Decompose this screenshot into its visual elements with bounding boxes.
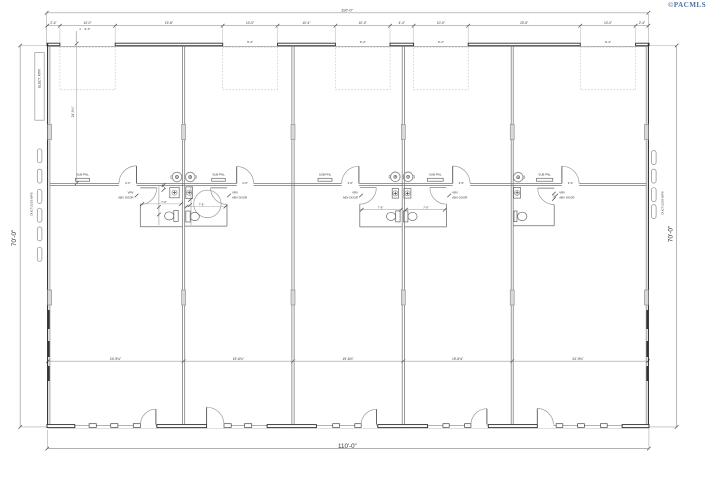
svg-text:ABV DOOR: ABV DOOR bbox=[232, 196, 247, 200]
svg-text:19'-6¾": 19'-6¾" bbox=[342, 357, 354, 361]
svg-text:7'-6": 7'-6" bbox=[378, 206, 384, 210]
svg-text:VRV: VRV bbox=[559, 190, 565, 194]
bathroom unit 3 (toilet, sink, door) bbox=[360, 188, 403, 227]
svg-text:ABV DOOR: ABV DOOR bbox=[343, 196, 358, 200]
water heater 1 bbox=[171, 172, 182, 182]
label: VRV above door unit 4 bbox=[447, 190, 467, 199]
label: door height 9'-4" (opening 3) bbox=[360, 40, 366, 44]
svg-text:ABV DOOR: ABV DOOR bbox=[118, 196, 133, 200]
svg-text:9'-4": 9'-4" bbox=[438, 40, 444, 44]
svg-text:10'-0": 10'-0" bbox=[359, 21, 367, 25]
svg-text:DUCTLESS MPS: DUCTLESS MPS bbox=[30, 192, 34, 215]
bathroom unit 1 (toilet, sink, door) bbox=[140, 183, 183, 226]
label: VRV above door unit 2 bbox=[227, 190, 247, 199]
wall: left exterior bbox=[48, 43, 50, 427]
water heater 4 bbox=[403, 172, 414, 182]
svg-text:SUB PNL: SUB PNL bbox=[212, 173, 225, 177]
wall: mid partition (front/back) bbox=[50, 183, 646, 185]
dimension row: bay segments (top) bbox=[45, 21, 650, 43]
svg-text:VRV: VRV bbox=[128, 190, 134, 194]
sub panel unit 2 bbox=[212, 173, 226, 182]
dimension: right height 70'-0" bbox=[649, 44, 679, 429]
svg-text:24'-9¾": 24'-9¾" bbox=[71, 107, 75, 118]
sub panel unit 3 bbox=[318, 173, 332, 182]
svg-text:24'-9¾": 24'-9¾" bbox=[110, 357, 122, 361]
label: door height 9'-4" (opening 1) bbox=[76, 27, 90, 43]
door: unit 2 mid-partition door 3'-0" bbox=[237, 167, 254, 185]
wall: right exterior bbox=[646, 43, 648, 427]
svg-text:9'-4": 9'-4" bbox=[85, 27, 91, 31]
svg-text:10'-0": 10'-0" bbox=[604, 21, 612, 25]
svg-text:9'-4": 9'-4" bbox=[360, 40, 366, 44]
wall: bottom exterior bbox=[47, 425, 649, 429]
water heater 2 bbox=[185, 172, 196, 182]
bathroom unit 4 (toilet, sink, door) bbox=[404, 188, 447, 227]
dimension row: unit widths (interior) bbox=[46, 357, 650, 363]
water heater 5 bbox=[513, 172, 524, 182]
bathroom unit 5 (toilet, sink, door) bbox=[513, 188, 555, 226]
svg-text:24'-9¾": 24'-9¾" bbox=[572, 357, 584, 361]
wall: unit divider 4 (x=512) bbox=[511, 46, 513, 425]
svg-text:19'-8": 19'-8" bbox=[165, 21, 173, 25]
svg-text:2'-4": 2'-4" bbox=[639, 21, 645, 25]
svg-text:10'-0": 10'-0" bbox=[83, 21, 91, 25]
svg-text:10'-4": 10'-4" bbox=[302, 21, 310, 25]
water heater 3 bbox=[389, 172, 400, 182]
svg-text:9'-4": 9'-4" bbox=[247, 40, 253, 44]
door: unit 2 rear man door bbox=[207, 407, 224, 424]
dimension: front bay depth 24'-9 3/4" bbox=[71, 42, 78, 185]
svg-text:19'-6¾": 19'-6¾" bbox=[452, 357, 464, 361]
sub panel unit 5 bbox=[537, 173, 553, 182]
svg-text:110'-0": 110'-0" bbox=[338, 443, 357, 450]
dashed: overhead door tracks bbox=[60, 47, 636, 90]
svg-text:ABV DOOR: ABV DOOR bbox=[452, 196, 467, 200]
ductless condensers (left) bbox=[37, 149, 42, 261]
label: door height 9'-4" (opening 4) bbox=[438, 40, 444, 44]
left wall girt segments bbox=[48, 310, 50, 381]
svg-text:ELECT. MTR: ELECT. MTR bbox=[38, 69, 42, 88]
wall: unit divider 3 (x=403) bbox=[402, 46, 404, 425]
svg-text:VRV: VRV bbox=[232, 190, 238, 194]
svg-text:2'-4": 2'-4" bbox=[50, 21, 56, 25]
watermark PACMLS bbox=[668, 1, 706, 9]
svg-text:4'-4": 4'-4" bbox=[399, 21, 405, 25]
svg-text:110'-0": 110'-0" bbox=[341, 8, 354, 13]
wall: unit divider 2 (x=293) bbox=[292, 46, 294, 425]
dimension row: overall width 110'-0" (top) bbox=[45, 8, 650, 43]
svg-text:7'-6": 7'-6" bbox=[423, 206, 429, 210]
svg-text:SUB PNL: SUB PNL bbox=[76, 173, 89, 177]
sub panel unit 4 bbox=[427, 173, 443, 182]
door: unit 4 rear man door bbox=[471, 409, 487, 425]
svg-text:3'-0": 3'-0" bbox=[242, 181, 248, 185]
label: ductless mini-splits (right) bbox=[661, 191, 665, 214]
svg-text:9'-4": 9'-4" bbox=[605, 40, 611, 44]
label: VRV above door unit 5 bbox=[554, 190, 574, 199]
svg-text:VRV: VRV bbox=[452, 190, 458, 194]
svg-text:©PACMLS: ©PACMLS bbox=[668, 1, 706, 9]
svg-text:70'-0": 70'-0" bbox=[668, 225, 675, 242]
door: unit 3 mid-partition door 3'-0" bbox=[342, 166, 359, 185]
svg-text:7'-6": 7'-6" bbox=[161, 200, 167, 204]
bathroom unit 2 (ADA circle, toilet, sink, door) bbox=[185, 186, 228, 226]
ductless condensers (right) bbox=[652, 151, 657, 219]
door: unit 5 mid-partition door 3'-0" bbox=[562, 166, 579, 185]
door: unit 3 rear man door bbox=[361, 409, 376, 424]
door: unit 1 mid-partition door 3'-0" bbox=[119, 166, 137, 185]
label: VRV above door unit 3 bbox=[343, 190, 363, 199]
label: door height 9'-4" (opening 5) bbox=[605, 40, 611, 44]
svg-text:10'-0": 10'-0" bbox=[246, 21, 254, 25]
svg-text:3'-0": 3'-0" bbox=[459, 181, 465, 185]
label: door height 9'-4" (opening 2) bbox=[247, 40, 253, 44]
wall pilaster marks bbox=[48, 125, 649, 306]
door: unit 4 mid-partition door 3'-0" bbox=[453, 166, 470, 185]
svg-text:SUB PNL: SUB PNL bbox=[429, 173, 442, 177]
bottom wall panel marks bbox=[89, 424, 607, 428]
wall: unit divider 1 (x=184) bbox=[183, 46, 185, 425]
door: unit 1 rear man door bbox=[141, 409, 156, 424]
svg-text:70'-0": 70'-0" bbox=[11, 229, 18, 246]
svg-text:10'-0": 10'-0" bbox=[437, 21, 445, 25]
wall: top exterior (with header segments) bbox=[47, 43, 649, 46]
svg-text:3'-0": 3'-0" bbox=[568, 181, 574, 185]
door: unit 5 rear man door bbox=[537, 408, 553, 424]
dimension: left height 70'-0" bbox=[11, 44, 47, 429]
svg-text:ABV DOOR: ABV DOOR bbox=[559, 196, 574, 200]
electrical meter bank bbox=[35, 53, 44, 121]
svg-text:SUB PNL: SUB PNL bbox=[538, 173, 551, 177]
sub panel unit 1 bbox=[75, 173, 89, 182]
svg-text:20'-6": 20'-6" bbox=[520, 21, 528, 25]
svg-text:7'-6": 7'-6" bbox=[199, 202, 205, 206]
right wall girt segments bbox=[647, 310, 649, 381]
svg-text:3'-0": 3'-0" bbox=[125, 181, 131, 185]
label: ductless mini-splits (left) bbox=[30, 192, 34, 215]
svg-text:DUCTLESS MPS: DUCTLESS MPS bbox=[661, 191, 665, 214]
svg-text:SUB PNL: SUB PNL bbox=[319, 173, 332, 177]
svg-text:19'-6¾": 19'-6¾" bbox=[233, 357, 245, 361]
dimension: overall width 110'-0" (bottom) bbox=[46, 428, 651, 451]
svg-text:VRV: VRV bbox=[352, 190, 358, 194]
label: VRV above door unit 1 bbox=[118, 190, 138, 199]
svg-text:3'-0": 3'-0" bbox=[348, 181, 354, 185]
